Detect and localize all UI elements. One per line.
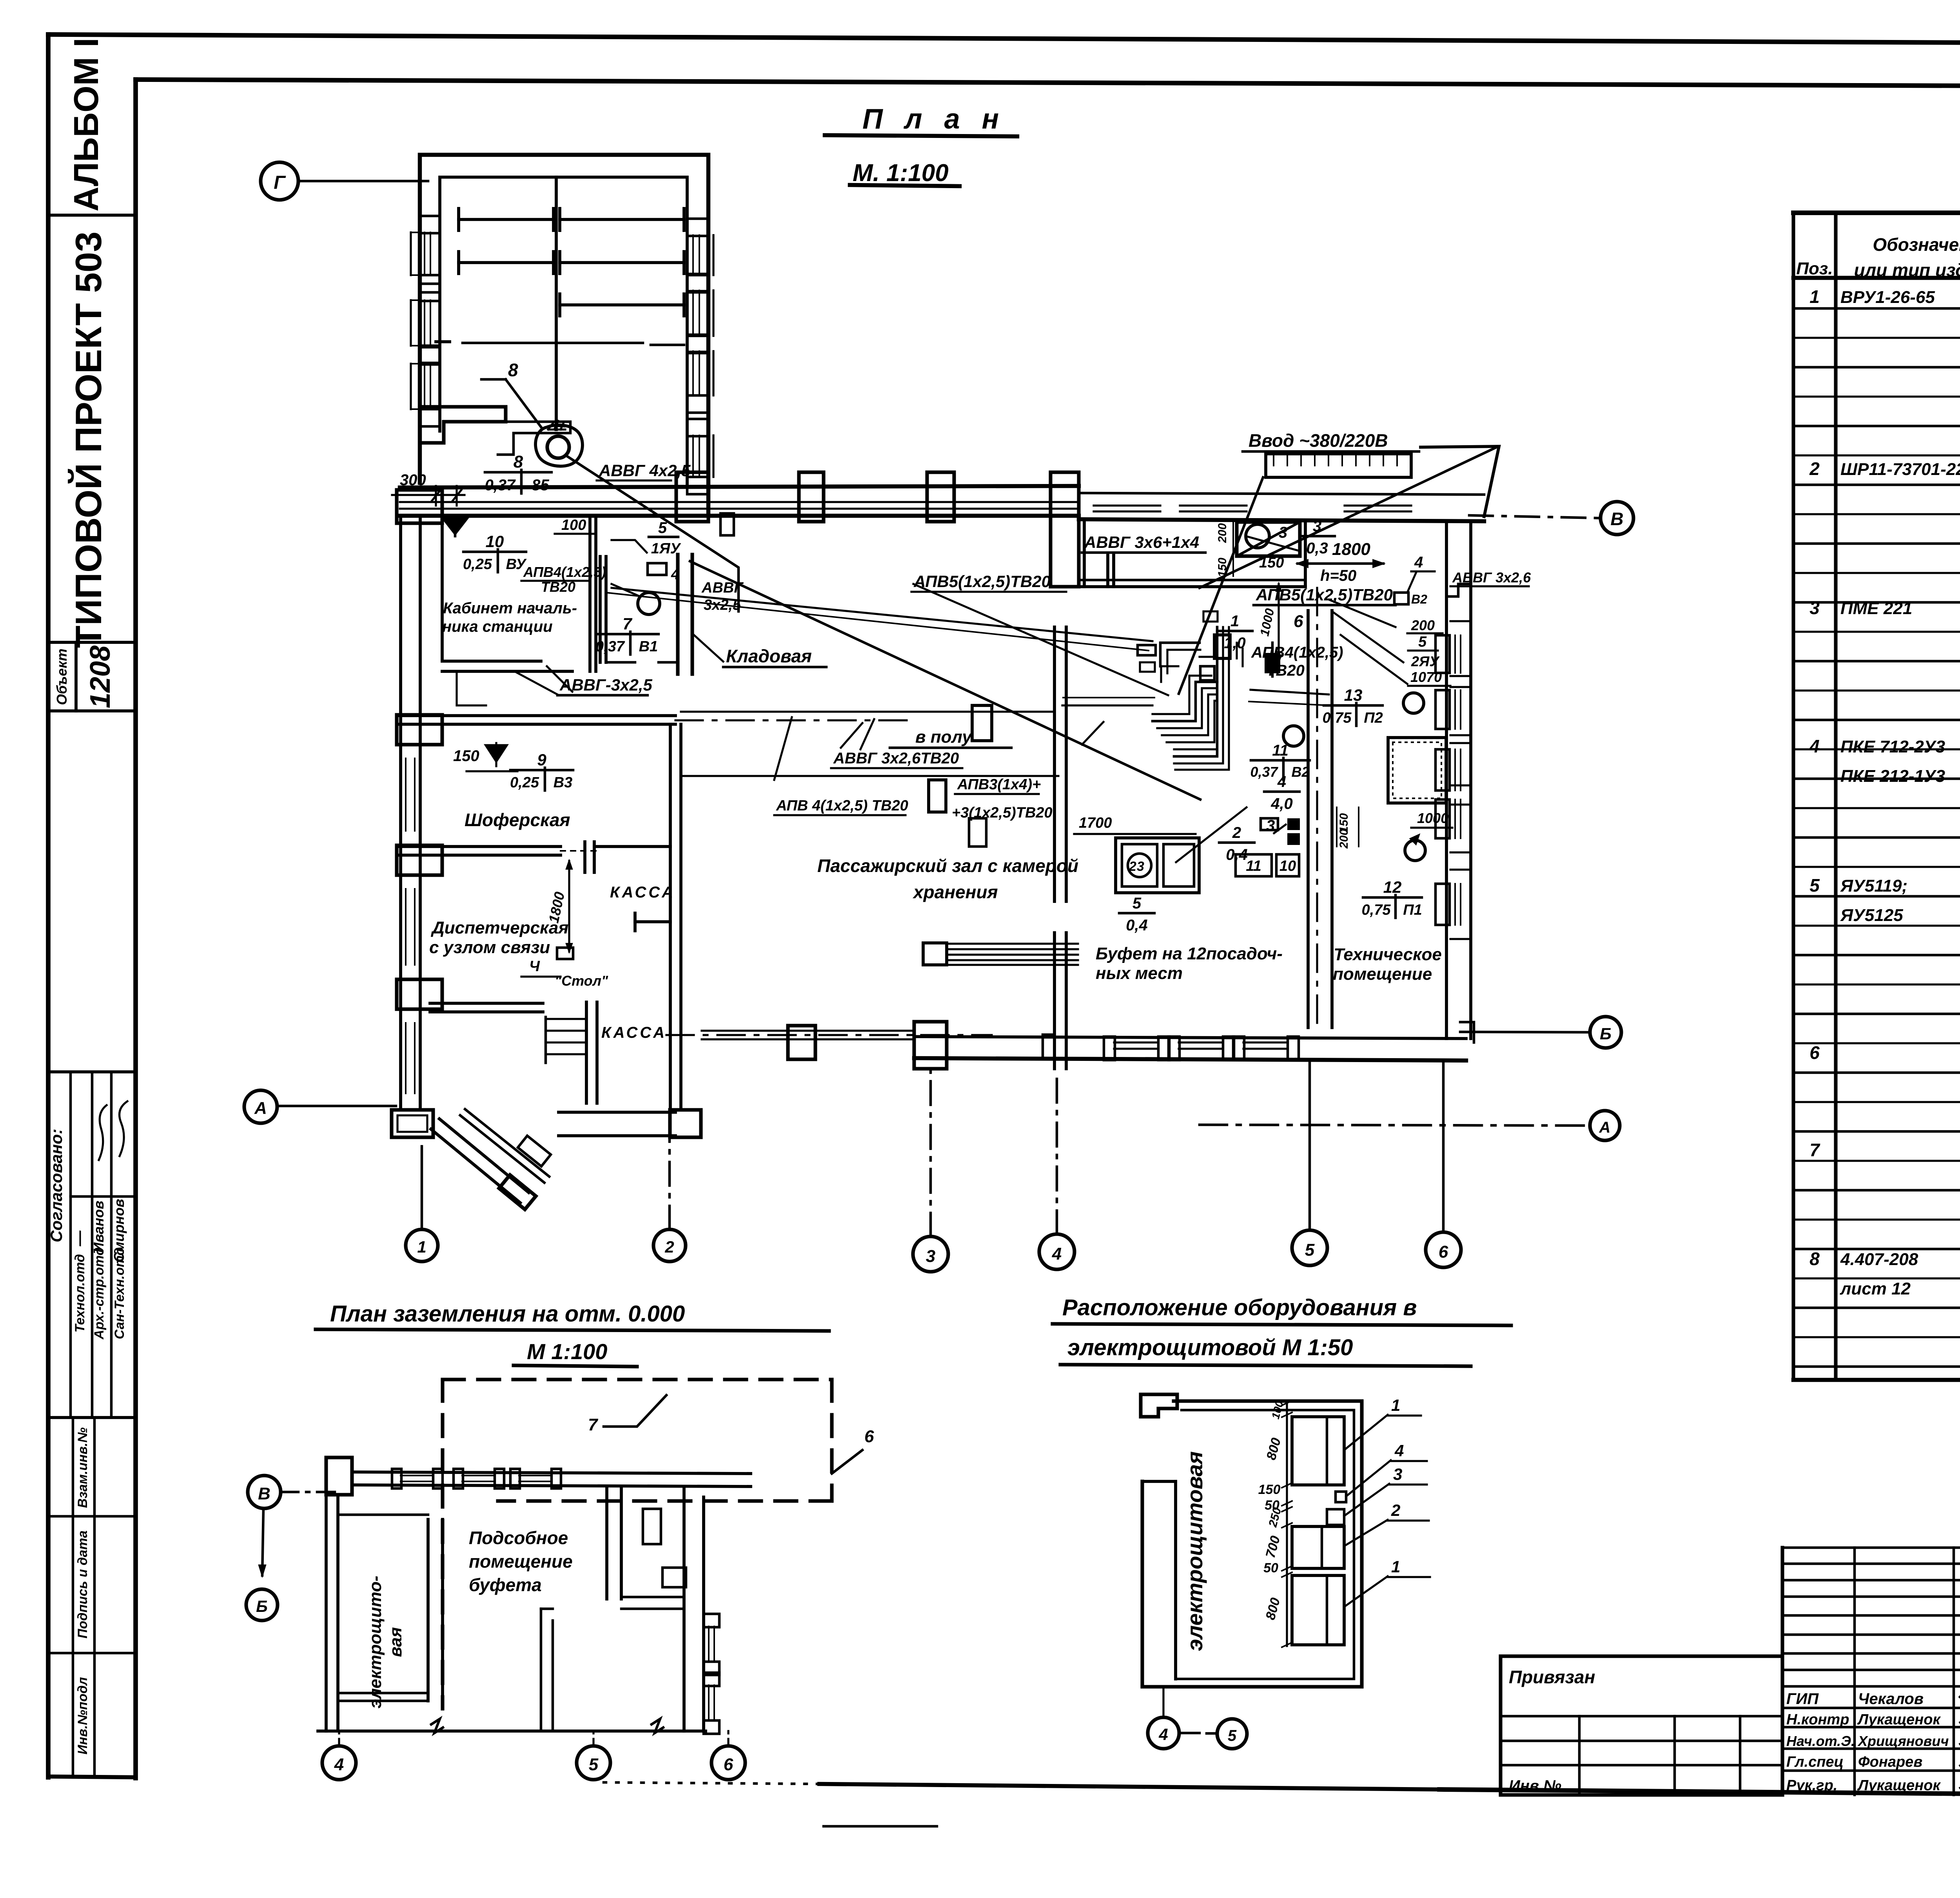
svg-text:150: 150: [1216, 558, 1229, 577]
axis 3: [913, 1236, 948, 1272]
svg-text:Расположение оборудования в: Расположение оборудования в: [1062, 1295, 1417, 1320]
window: [405, 758, 407, 831]
svg-text:В2: В2: [1411, 592, 1427, 606]
svg-text:6: 6: [1439, 1242, 1448, 1262]
sheet outer border top: [48, 34, 1960, 44]
svg-text:4: 4: [334, 1755, 344, 1774]
axis Г: [261, 162, 298, 200]
panel 1 bottom: [1292, 1575, 1344, 1645]
window: [420, 347, 440, 364]
svg-text:h=50: h=50: [1320, 567, 1356, 584]
spec table header divider: [1793, 276, 1960, 280]
svg-text:АПВ5(1х2,5)ТВ20: АПВ5(1х2,5)ТВ20: [913, 572, 1051, 591]
кабинет door gaps wall bottom: [547, 666, 572, 692]
floor channel dash line: [681, 775, 1058, 777]
svg-text:3: 3: [1393, 1465, 1402, 1483]
svg-text:ника станции: ника станции: [442, 618, 553, 635]
svg-text:В: В: [258, 1484, 270, 1503]
вру cabinet: [1237, 522, 1300, 556]
window: [1436, 799, 1450, 838]
svg-text:ТВ20: ТВ20: [1266, 662, 1305, 679]
в2 box with 4 leader: [1394, 593, 1408, 604]
porch pier: [788, 1026, 815, 1059]
svg-text:Технол.отд: Технол.отд: [73, 1254, 87, 1332]
electro room walls: [426, 1519, 430, 1701]
vestibule end blocks: [499, 1175, 536, 1209]
svg-text:П л а н: П л а н: [862, 103, 1006, 135]
wing long partition: [463, 342, 643, 344]
svg-text:Подпись и дата: Подпись и дата: [75, 1530, 90, 1639]
axis 5: [1292, 1230, 1327, 1265]
axis 2: [653, 1229, 686, 1262]
svg-text:+3(1х2,5)ТВ20: +3(1х2,5)ТВ20: [952, 805, 1053, 821]
svg-text:Арх.-стр.отд: Арх.-стр.отд: [92, 1247, 107, 1340]
svg-text:150: 150: [1259, 555, 1284, 571]
svg-text:АПВ4(1х2,5): АПВ4(1х2,5): [523, 564, 606, 580]
svg-text:13: 13: [1344, 686, 1363, 704]
svg-text:8: 8: [508, 360, 518, 380]
шоферская bottom wall: [400, 845, 561, 848]
11 10 boxes: [1236, 854, 1272, 876]
svg-text:4.407-208: 4.407-208: [1840, 1250, 1918, 1269]
approval block grid: [69, 1072, 72, 1418]
svg-text:помещение: помещение: [469, 1551, 573, 1572]
ground line: [318, 1729, 706, 1733]
panel 1 top: [1292, 1417, 1344, 1485]
svg-text:Буфет на 12посадоч-: Буфет на 12посадоч-: [1096, 944, 1283, 963]
spec table column line: [1834, 213, 1837, 1380]
svg-text:КАССА: КАССА: [601, 1024, 667, 1041]
svg-text:Лукащенок: Лукащенок: [1857, 1711, 1941, 1728]
svg-text:Обозначение: Обозначение: [1873, 234, 1960, 255]
svg-text:Н.контр: Н.контр: [1786, 1711, 1849, 1728]
bottom frame line: [48, 1777, 136, 1777]
axis line dash dot right: [675, 719, 913, 721]
svg-text:4: 4: [1277, 773, 1286, 790]
ву triangle symbol: [443, 518, 467, 534]
svg-text:ПМЕ 221: ПМЕ 221: [1840, 599, 1912, 618]
small box 4: [1336, 1492, 1346, 1502]
stairs to kassa2: [546, 1018, 585, 1020]
svg-text:1: 1: [1809, 286, 1820, 307]
дисп door: [561, 850, 600, 852]
svg-text:В2: В2: [1291, 764, 1309, 780]
long diagonal wire 1: [690, 561, 1200, 799]
svg-text:4: 4: [1394, 1441, 1404, 1460]
window: [1094, 504, 1160, 506]
small stubs top right: [643, 1509, 661, 1544]
ground loop dashed rectangle: [443, 1378, 832, 1381]
svg-text:6: 6: [864, 1427, 874, 1446]
svg-text:Взам.инв.№: Взам.инв.№: [75, 1427, 90, 1508]
svg-text:1070: 1070: [1410, 669, 1442, 685]
svg-text:200: 200: [1216, 523, 1229, 543]
svg-text:электрощитовой М 1:50: электрощитовой М 1:50: [1067, 1335, 1353, 1360]
кладовая walls: [599, 557, 602, 662]
spec table ruled lines: [1793, 307, 1960, 310]
lamp circles: [1283, 726, 1304, 746]
svg-text:АПВ4(1х2,5): АПВ4(1х2,5): [1251, 644, 1343, 661]
svg-text:буфета: буфета: [469, 1575, 542, 1595]
signature table grid: [1782, 1546, 1960, 1549]
wing centre partition: [555, 177, 558, 430]
svg-text:3: 3: [1279, 524, 1287, 541]
pier: [397, 845, 442, 875]
right interior walls: [605, 1486, 608, 1599]
window sill: [1243, 1041, 1288, 1043]
svg-text:Пассажирский зал с камерой: Пассажирский зал с камерой: [817, 856, 1078, 876]
axis А right: [1590, 1111, 1620, 1140]
svg-text:9: 9: [537, 750, 546, 769]
svg-text:в полу: в полу: [915, 727, 973, 747]
svg-text:вая: вая: [386, 1627, 405, 1657]
margin table grid: [72, 1418, 74, 1777]
kassa2 partition: [585, 1002, 588, 1103]
spec table outer box: [1793, 210, 1960, 215]
wing bottom interior L wall: [420, 407, 506, 443]
svg-text:Нач.от.Э.: Нач.от.Э.: [1786, 1733, 1855, 1749]
buffet left wall: [1053, 627, 1056, 901]
room partition: [1106, 555, 1109, 587]
svg-text:"Стол": "Стол": [555, 973, 608, 989]
svg-text:Техническое: Техническое: [1334, 945, 1442, 964]
svg-text:с узлом связи: с узлом связи: [429, 938, 550, 957]
svg-text:12: 12: [1383, 878, 1402, 896]
svg-text:0,25: 0,25: [463, 556, 492, 573]
axis В leader and circle: [1469, 515, 1601, 518]
svg-text:Б: Б: [256, 1597, 268, 1615]
window: [1436, 690, 1450, 729]
svg-text:3: 3: [1809, 598, 1820, 618]
svg-text:П1: П1: [1403, 902, 1422, 918]
grounding building: top-left block: [326, 1457, 352, 1495]
svg-text:АЛЬБОМ I: АЛЬБОМ I: [67, 38, 105, 212]
window: [704, 1614, 719, 1627]
svg-text:0,37: 0,37: [595, 638, 625, 655]
svg-text:АВВГ 3х2,6ТВ20: АВВГ 3х2,6ТВ20: [833, 750, 959, 767]
grounding building top wall: [352, 1472, 751, 1474]
svg-text:или тип изделия: или тип изделия: [1854, 260, 1960, 280]
axis А left: [244, 1090, 277, 1123]
svg-text:Ч: Ч: [529, 958, 540, 975]
svg-text:8: 8: [514, 452, 523, 471]
switchboard wiring bundle: [1160, 643, 1200, 666]
svg-text:3: 3: [1266, 817, 1275, 834]
svg-text:7: 7: [1809, 1140, 1820, 1160]
svg-text:Г: Г: [274, 172, 286, 193]
svg-text:электрощитовая: электрощитовая: [1182, 1451, 1207, 1651]
dim 1800 vertical: [568, 861, 570, 952]
wing outer walls: [420, 155, 708, 513]
svg-text:5: 5: [658, 519, 667, 537]
pier: [397, 979, 442, 1009]
svg-text:В: В: [1610, 509, 1623, 529]
svg-text:4: 4: [1809, 736, 1820, 756]
window: [1436, 749, 1450, 790]
svg-text:КАССА: КАССА: [610, 884, 675, 901]
svg-text:В3: В3: [554, 774, 573, 791]
svg-text:10: 10: [486, 532, 504, 551]
wall stub above kassa1: [583, 842, 586, 872]
svg-text:АПВ5(1х2,5)ТВ20: АПВ5(1х2,5)ТВ20: [1256, 586, 1393, 604]
window: [687, 274, 708, 291]
svg-text:1: 1: [1391, 1557, 1400, 1576]
svg-text:А: А: [254, 1099, 267, 1118]
entrance vestibule diagonal walls: [431, 1129, 520, 1203]
roof fan unit: [535, 425, 583, 466]
band piers: [799, 472, 824, 522]
svg-text:М. 1:100: М. 1:100: [853, 160, 949, 187]
svg-text:200: 200: [1338, 829, 1350, 849]
svg-text:Инв.№подл: Инв.№подл: [75, 1677, 90, 1755]
svg-text:ЯУ5119;: ЯУ5119;: [1840, 876, 1907, 896]
svg-text:ПКЕ 712-2У3: ПКЕ 712-2У3: [1840, 737, 1945, 756]
left outer wall: [399, 516, 402, 1110]
svg-text:4: 4: [1052, 1244, 1062, 1264]
svg-text:Гл.спец: Гл.спец: [1786, 1754, 1844, 1770]
axis 1: [406, 1229, 438, 1262]
svg-text:Фонарев: Фонарев: [1858, 1754, 1922, 1770]
kassa1 bottom partition: [635, 920, 670, 923]
window sill: [1114, 1041, 1158, 1043]
шоферская top wall: [400, 714, 675, 717]
svg-text:150: 150: [453, 747, 479, 765]
svg-text:Подсобное: Подсобное: [469, 1528, 568, 1548]
svg-text:1ЯУ: 1ЯУ: [651, 540, 682, 557]
svg-text:ВРУ1-26-65: ВРУ1-26-65: [1840, 288, 1935, 307]
svg-text:—: —: [71, 1230, 88, 1247]
svg-text:6: 6: [1294, 612, 1303, 631]
stray bottom segment: [824, 1825, 937, 1828]
dimension chain: [1286, 1403, 1288, 1646]
svg-text:7: 7: [622, 615, 632, 633]
svg-text:5: 5: [589, 1755, 599, 1774]
svg-text:Смирнов: Смирнов: [111, 1199, 127, 1262]
привязан box: [1501, 1656, 1782, 1795]
wing inner wall lines: [440, 177, 687, 484]
top-left corner pier: [397, 490, 442, 523]
axis 5 circle: [577, 1746, 610, 1780]
svg-text:лист 12: лист 12: [1840, 1279, 1911, 1298]
svg-text:ШР11-73701-22У3: ШР11-73701-22У3: [1840, 460, 1960, 479]
svg-text:Инв.№: Инв.№: [1509, 1777, 1561, 1795]
svg-text:помещение: помещение: [1333, 964, 1432, 984]
svg-text:Согласовано:: Согласовано:: [47, 1129, 65, 1242]
svg-text:Привязан: Привязан: [1509, 1667, 1595, 1687]
svg-text:А: А: [1599, 1119, 1611, 1136]
wing stall partitions left: [459, 218, 554, 221]
svg-text:ТИПОВОЙ ПРОЕКТ 503: ТИПОВОЙ ПРОЕКТ 503: [67, 232, 109, 648]
svg-text:2: 2: [1809, 459, 1820, 479]
svg-text:Б: Б: [1600, 1024, 1612, 1043]
svg-text:0,37: 0,37: [485, 477, 516, 494]
axis 4: [1039, 1234, 1074, 1269]
window: [519, 1475, 552, 1476]
svg-text:Поз.: Поз.: [1796, 259, 1833, 278]
svg-text:Объект: Объект: [54, 649, 70, 705]
window: [687, 419, 708, 436]
sidebar cell dividers: [48, 214, 136, 217]
window: [1436, 635, 1450, 673]
south pier left: [914, 1022, 947, 1069]
window: [401, 1475, 433, 1476]
pier: [397, 715, 442, 745]
svg-text:1700: 1700: [1079, 815, 1112, 831]
svg-text:Чекалов: Чекалов: [1858, 1690, 1924, 1708]
яу boxes: [720, 513, 734, 535]
кабинет room walls: [442, 516, 572, 671]
wing stall partitions right: [560, 218, 684, 221]
svg-text:ПКЕ 212-1У3: ПКЕ 212-1У3: [1840, 767, 1945, 786]
svg-text:3: 3: [926, 1247, 935, 1266]
svg-text:электрощито-: электрощито-: [366, 1576, 385, 1709]
south wall right section: [914, 1037, 1466, 1039]
svg-text:150: 150: [1258, 1482, 1281, 1497]
big pier and wall to buffet room: [1051, 472, 1079, 587]
spec table column line: [1791, 213, 1795, 1380]
north corridor band thin pair: [400, 501, 1079, 503]
svg-text:АПВ 4(1х2,5) ТВ20: АПВ 4(1х2,5) ТВ20: [776, 798, 908, 814]
svg-text:План заземления на отм. 0.000: План заземления на отм. 0.000: [330, 1301, 685, 1327]
long diagonal wire 2: [913, 584, 1168, 695]
window: [420, 216, 440, 233]
svg-text:0,75: 0,75: [1362, 902, 1391, 918]
2ЯУ dashed cabinet: [1388, 738, 1446, 803]
svg-text:АПВ3(1х4)+: АПВ3(1х4)+: [957, 776, 1041, 793]
svg-text:Хрищянович: Хрищянович: [1857, 1733, 1949, 1749]
window: [1180, 504, 1247, 506]
svg-text:10: 10: [1279, 858, 1296, 874]
tech room right wall: [1445, 521, 1448, 1039]
svg-text:хранения: хранения: [912, 882, 998, 902]
extra wiring strokes: [1152, 676, 1211, 714]
svg-text:4: 4: [1414, 554, 1423, 571]
window: [687, 335, 708, 352]
svg-text:5: 5: [1305, 1240, 1315, 1260]
wing junction block: [676, 472, 708, 522]
room left wall band: [1140, 1481, 1144, 1687]
svg-text:5: 5: [1228, 1727, 1237, 1744]
axis В circle: [248, 1476, 281, 1508]
window: [1436, 884, 1450, 925]
fan leader 8: [481, 378, 506, 381]
ввод conduit rectangle: [1266, 454, 1411, 477]
svg-text:Рук.гр.: Рук.гр.: [1786, 1777, 1837, 1794]
svg-text:4: 4: [1158, 1725, 1168, 1744]
svg-text:П2: П2: [1364, 710, 1383, 726]
window: [405, 1023, 407, 1093]
small box 3: [1327, 1509, 1344, 1525]
line between В and Б: [262, 1508, 263, 1575]
авbg cable from кабинет: [457, 671, 486, 705]
svg-text:Иванов: Иванов: [91, 1201, 107, 1253]
svg-text:2: 2: [1129, 859, 1136, 874]
svg-text:Кладовая: Кладовая: [726, 646, 812, 666]
wires from кабинет to switchboard: [612, 588, 1152, 641]
pier block bottom: [670, 1110, 701, 1137]
vertical hall wall: [669, 724, 672, 1110]
sheet inner frame left: [133, 80, 138, 1778]
svg-text:2: 2: [664, 1238, 674, 1256]
svg-text:3: 3: [1137, 859, 1144, 874]
svg-text:3: 3: [1313, 518, 1321, 535]
axis Б right: [1590, 1017, 1621, 1048]
axis 4 circle: [322, 1746, 356, 1780]
svg-text:0,75: 0,75: [1323, 710, 1352, 726]
svg-text:5: 5: [1418, 634, 1427, 650]
svg-text:ных мест: ных мест: [1096, 964, 1183, 983]
svg-text:Кабинет началь-: Кабинет началь-: [443, 600, 577, 617]
axis Б circle: [246, 1589, 278, 1621]
grounding building left wall: [325, 1495, 328, 1731]
sheet outer border left: [46, 34, 51, 1777]
axis 5 circle: [1217, 1719, 1247, 1749]
svg-text:Шоферская: Шоферская: [465, 810, 570, 830]
ввод entry diagonal: [1421, 446, 1499, 517]
vertical shaft walls: [1307, 611, 1310, 1028]
svg-text:1800: 1800: [1332, 540, 1370, 559]
svg-text:6: 6: [1809, 1042, 1820, 1063]
svg-text:8: 8: [1809, 1249, 1820, 1269]
svg-text:200: 200: [1411, 617, 1435, 633]
axis 6 circle: [711, 1746, 745, 1780]
switchboard boxes: [1214, 635, 1230, 658]
svg-text:ГИП: ГИП: [1786, 1690, 1819, 1708]
svg-text:1: 1: [1230, 613, 1239, 630]
north corridor band top: [400, 486, 1079, 488]
north corridor band bottom: [400, 514, 1079, 518]
svg-text:4: 4: [671, 566, 679, 583]
window: [1345, 504, 1411, 506]
approval signatures: [99, 1105, 107, 1160]
svg-text:6: 6: [724, 1755, 733, 1774]
svg-text:М 1:100: М 1:100: [527, 1339, 607, 1364]
svg-text:5: 5: [1132, 895, 1142, 912]
svg-text:В1: В1: [639, 638, 658, 655]
dispatcher bottom wall: [430, 1002, 543, 1005]
hall axis thin line: [681, 711, 1054, 712]
bottom left corner block: [392, 1110, 433, 1137]
window: [420, 284, 440, 301]
svg-text:1208: 1208: [85, 645, 116, 708]
svg-text:50: 50: [1263, 1561, 1278, 1575]
window: [405, 889, 407, 965]
buffet stairs: [923, 943, 947, 965]
svg-text:0,4: 0,4: [1126, 917, 1148, 934]
svg-text:АВВГ-3х2,5: АВВГ-3х2,5: [559, 676, 653, 694]
svg-text:7: 7: [588, 1415, 599, 1434]
svg-text:4,0: 4,0: [1270, 795, 1293, 812]
svg-text:100: 100: [561, 517, 586, 533]
bottom wall middle: [559, 1111, 675, 1114]
svg-text:5: 5: [1809, 875, 1820, 896]
lamp circle: [638, 593, 660, 615]
room outer walls: [1142, 1401, 1362, 1687]
svg-text:1: 1: [417, 1238, 426, 1256]
svg-text:1: 1: [1391, 1396, 1400, 1414]
svg-text:Лукащенок: Лукащенок: [1857, 1777, 1941, 1794]
пускатели black boxes: [1287, 818, 1300, 830]
window: [687, 219, 708, 236]
svg-text:2: 2: [1391, 1501, 1400, 1519]
svg-text:2: 2: [1232, 824, 1241, 841]
svg-text:0,37: 0,37: [1250, 764, 1278, 780]
axis 4 circle: [1148, 1717, 1179, 1749]
north wall right section: [1079, 493, 1484, 495]
top-left step block: [1141, 1394, 1177, 1417]
svg-text:ЯУ5125: ЯУ5125: [1840, 906, 1903, 925]
dim 1000 vertical: [1278, 584, 1279, 662]
